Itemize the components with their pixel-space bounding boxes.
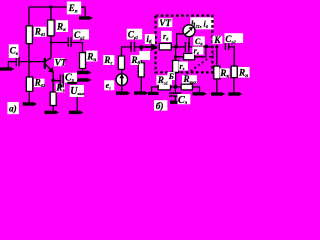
label Re1 (156, 75, 172, 86)
label a) (7, 102, 19, 115)
ground Rn (77, 69, 92, 75)
label Ep (67, 2, 81, 15)
label Cp2 b (225, 33, 244, 45)
label eg (104, 80, 114, 90)
resistor rb (159, 43, 171, 50)
label Rk (56, 20, 68, 33)
label Rvyh (182, 75, 198, 85)
node collector out (50, 41, 53, 44)
resistor rk (184, 53, 195, 59)
resistor Re1 (158, 84, 170, 90)
capacitor Ck (185, 42, 188, 52)
ground eg (116, 85, 131, 95)
source eg circle (116, 74, 128, 86)
label re (179, 62, 189, 72)
wire Uvyh ground (76, 97, 78, 111)
ground Ce stub bar (67, 82, 77, 84)
ground Re2 (193, 92, 207, 96)
label Rn b (238, 67, 250, 79)
svg-text:VT: VT (159, 19, 171, 29)
ground Ep bar (79, 16, 93, 20)
white patch (139, 51, 150, 60)
label Ck (193, 36, 205, 46)
node Rk b (215, 45, 218, 48)
resistor Rb1 (26, 7, 32, 61)
ground input bar (0, 62, 15, 71)
node emitter b (173, 85, 177, 89)
resistor Rk (48, 7, 55, 58)
wire Ck to K (189, 46, 213, 48)
capacitor Cp2 (68, 37, 71, 47)
capacitor Cv (16, 57, 19, 66)
label VT (54, 58, 67, 68)
node Rb top (139, 45, 143, 49)
resistor Re2 (181, 84, 192, 90)
transistor VT emitter (46, 65, 54, 80)
label Rb2 (34, 79, 46, 89)
resistor Rn (80, 53, 86, 69)
dashed arrow Rvyh (187, 54, 214, 74)
resistor Rb (138, 47, 144, 91)
svg-text:б): б) (156, 101, 164, 112)
capacitor Ce (60, 75, 63, 88)
wire Re2 to ground (192, 87, 199, 92)
label Rk b (219, 68, 229, 79)
ground Ce bar (78, 78, 92, 82)
label rk (192, 46, 203, 55)
wire Ce to ground (64, 80, 78, 82)
wire top rail (29, 6, 84, 8)
ground Re (45, 110, 60, 114)
transistor VT collector (46, 57, 51, 61)
wire input (8, 61, 16, 63)
label h21ib (190, 17, 213, 29)
label K (213, 36, 223, 46)
label rb (161, 31, 172, 42)
ground Uvyh bar (69, 110, 84, 114)
label Cv (9, 44, 19, 58)
ground Rb2 (23, 102, 37, 106)
node b' lower (174, 55, 177, 58)
label Cp2 (73, 29, 89, 41)
resistor Rn b (231, 66, 237, 92)
resistor Rk b (214, 47, 220, 93)
label Rn (86, 51, 97, 63)
svg-text:К: К (213, 36, 221, 46)
node collector b (204, 45, 208, 49)
transistor VT base bar (44, 58, 46, 69)
wire emitter to Ce (53, 80, 59, 82)
wire Cp2 to Rn (72, 43, 83, 53)
resistor Re (50, 80, 56, 111)
label Uvyh (70, 85, 86, 97)
ground Re1 (148, 92, 159, 95)
node emitter (51, 79, 55, 83)
arrow ib (145, 46, 152, 48)
wire Cp2 to Rn b (229, 47, 234, 66)
ground Rn b (228, 92, 242, 96)
wire rb to Ck (171, 46, 185, 48)
resistor Rb2 (26, 62, 32, 103)
wire Re1 to ground (152, 87, 159, 92)
ground Rb (134, 91, 148, 95)
node top rail (49, 5, 52, 8)
label Ce b (178, 94, 191, 106)
wire bridge to source (177, 34, 184, 47)
svg-text:Б: Б (168, 72, 174, 81)
node b' (174, 45, 178, 49)
node base divider (28, 60, 31, 63)
svg-text:а): а) (9, 104, 17, 115)
label Ce (64, 73, 77, 84)
wire Ep down (81, 7, 85, 17)
ground Ce b (170, 100, 184, 104)
wire rk drop (176, 47, 206, 57)
source h21 circle (183, 25, 195, 47)
resistor re (173, 47, 179, 87)
resistor Rg (118, 46, 124, 74)
ground Rk b (211, 92, 225, 96)
label Cp1 (127, 29, 143, 41)
capacitor Cp2 b (225, 38, 228, 50)
label VT b (158, 18, 172, 29)
label Re (55, 84, 64, 95)
capacitor Ce b (169, 87, 181, 101)
wire emitter left (170, 86, 175, 88)
wire base (20, 61, 44, 63)
label Rb (130, 55, 140, 66)
label b) (154, 100, 167, 112)
label Rb1 (34, 27, 47, 38)
dashed box VT (156, 16, 213, 73)
wire collector to Cp2 (51, 42, 68, 44)
wire emitter right (175, 86, 181, 88)
capacitor Cp1 b (131, 42, 135, 52)
label B terminal (167, 72, 174, 81)
label ib (145, 34, 155, 46)
wire Cp1 to box (135, 46, 155, 48)
label Rg (103, 55, 114, 66)
svg-text:VT: VT (55, 58, 67, 68)
wire input b (122, 46, 131, 48)
